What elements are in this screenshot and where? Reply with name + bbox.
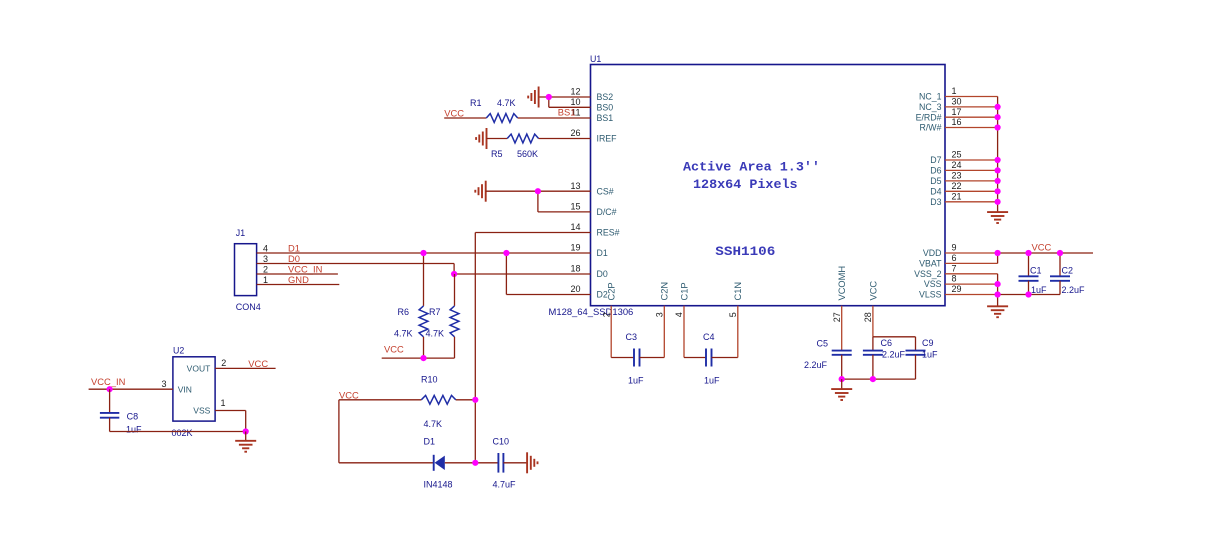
svg-text:D1: D1: [424, 437, 436, 447]
svg-text:BS0: BS0: [597, 102, 614, 112]
svg-text:4.7K: 4.7K: [497, 98, 516, 108]
svg-text:1: 1: [952, 86, 957, 96]
wire D1 branch down to U1 pin20 D2: [506, 253, 590, 295]
ground at C5: [831, 389, 852, 400]
svg-text:C10: C10: [493, 437, 510, 447]
svg-text:17: 17: [952, 107, 962, 117]
wire ground to R5: [487, 138, 508, 140]
wire R10 to RES# line: [456, 399, 476, 401]
svg-text:VBAT: VBAT: [919, 259, 942, 269]
ground at right bus: [987, 212, 1008, 223]
svg-text:IREF: IREF: [597, 134, 618, 144]
junction C1/VCC rail: [1025, 250, 1031, 256]
wire VCC to R10: [339, 399, 421, 401]
junction C5/rail: [839, 376, 845, 382]
ground at U2: [235, 441, 256, 452]
capacitor C5: [832, 351, 852, 355]
svg-text:4: 4: [674, 312, 684, 317]
wire U2 pin2 VOUT: [215, 367, 276, 369]
svg-text:29: 29: [952, 284, 962, 294]
junction bus: [995, 188, 1001, 194]
svg-text:NC_3: NC_3: [919, 102, 942, 112]
svg-text:3: 3: [161, 379, 166, 389]
svg-text:13: 13: [570, 181, 580, 191]
svg-text:BS1: BS1: [558, 106, 576, 117]
svg-text:8: 8: [952, 274, 957, 284]
svg-text:U2: U2: [173, 346, 184, 356]
capacitor C10: [498, 453, 503, 473]
svg-text:R5: R5: [491, 149, 503, 159]
capacitor C8: [100, 389, 119, 431]
svg-text:21: 21: [952, 191, 962, 201]
junction bus: [995, 178, 1001, 184]
wire VCC_IN stub (J1 pin2): [257, 273, 338, 275]
svg-text:VIN: VIN: [178, 384, 192, 394]
svg-text:C2N: C2N: [660, 282, 670, 301]
svg-text:C5: C5: [817, 339, 829, 349]
svg-text:GND: GND: [288, 274, 309, 285]
svg-text:D5: D5: [930, 176, 941, 186]
svg-text:24: 24: [952, 160, 962, 170]
svg-text:VSS_2: VSS_2: [914, 269, 941, 279]
resistor R7: [450, 274, 459, 358]
svg-text:BS2: BS2: [597, 92, 614, 102]
junction D1/R6: [420, 250, 426, 256]
svg-text:CS#: CS#: [597, 186, 614, 196]
wire pin10 BS0 up to BS2 row: [549, 97, 591, 107]
junction C6/rail: [870, 376, 876, 382]
junction BS2/BS0: [546, 94, 552, 100]
wire C3 to U1 pin3 C2N: [640, 306, 665, 358]
svg-text:2.2uF: 2.2uF: [882, 349, 906, 359]
junction CS#/D/C#: [535, 188, 541, 194]
wire C10 to ground: [503, 462, 527, 464]
resistor R5: [507, 134, 538, 143]
junction C2/VCC rail: [1057, 250, 1063, 256]
svg-text:19: 19: [570, 243, 580, 253]
wire VCC down to diode row: [339, 400, 434, 463]
svg-text:18: 18: [570, 264, 580, 274]
wire U1 pin27 VCOMH down: [841, 306, 843, 351]
svg-text:D/C#: D/C#: [597, 207, 617, 217]
svg-text:VCC: VCC: [339, 389, 359, 400]
svg-text:VSS: VSS: [193, 406, 210, 416]
junction D0/R7: [451, 271, 457, 277]
wire R1 to pin11 BS1: [518, 117, 591, 119]
svg-text:D1: D1: [597, 248, 608, 258]
wire VCC rail under R6/R7: [382, 357, 455, 359]
resistor R10: [421, 395, 456, 404]
svg-text:26: 26: [570, 128, 580, 138]
svg-text:C1P: C1P: [679, 282, 689, 300]
svg-text:6: 6: [952, 253, 957, 263]
svg-text:4.7K: 4.7K: [424, 419, 443, 429]
svg-text:2.2uF: 2.2uF: [804, 360, 828, 370]
svg-text:23: 23: [952, 171, 962, 181]
wire C5 to bottom rail: [841, 355, 843, 379]
junction bus: [995, 124, 1001, 130]
svg-text:D0: D0: [597, 269, 608, 279]
junction bus: [995, 167, 1001, 173]
wire R5 to pin26 IREF: [539, 138, 591, 140]
ground at BS2: [528, 87, 538, 108]
svg-text:3: 3: [263, 254, 268, 264]
svg-text:NC_1: NC_1: [919, 92, 942, 102]
svg-text:1uF: 1uF: [126, 425, 142, 435]
svg-text:VSS: VSS: [924, 279, 942, 289]
svg-text:20: 20: [570, 284, 580, 294]
wire cap bottom rail: [998, 294, 1060, 296]
svg-text:VOUT: VOUT: [187, 364, 211, 374]
ground at VSS group: [987, 306, 1008, 317]
wire U1 pin6 VBAT up to VDD row: [945, 253, 998, 263]
wire branch to pin15 D/C#: [538, 191, 591, 212]
svg-text:002K: 002K: [172, 428, 193, 438]
diode D1 IN4148: [434, 455, 445, 471]
svg-text:D3: D3: [930, 197, 941, 207]
svg-text:C8: C8: [127, 412, 139, 422]
wire VCC rail right: [998, 252, 1093, 254]
svg-text:R6: R6: [398, 307, 410, 317]
wire VCC to R1: [444, 117, 486, 119]
resistor R6: [419, 253, 428, 358]
wire to ground (U2): [245, 432, 247, 441]
svg-text:U1: U1: [590, 54, 601, 64]
capacitor C1: [1019, 253, 1039, 295]
svg-text:VLSS: VLSS: [919, 290, 942, 300]
junction diode/RES#: [472, 460, 478, 466]
resistor R1: [486, 114, 517, 123]
svg-text:VCOMH: VCOMH: [837, 266, 847, 301]
svg-text:C1: C1: [1030, 265, 1042, 275]
svg-text:C9: C9: [922, 338, 934, 348]
svg-text:D4: D4: [930, 186, 941, 196]
svg-text:D6: D6: [930, 166, 941, 176]
svg-text:Active Area 1.3'': Active Area 1.3'': [683, 161, 820, 175]
capacitor C6: [863, 351, 883, 355]
svg-text:25: 25: [952, 150, 962, 160]
svg-text:CON4: CON4: [236, 302, 261, 312]
svg-text:9: 9: [952, 243, 957, 253]
junction VDD/rail: [995, 250, 1001, 256]
junction R6/VCC rail: [420, 355, 426, 361]
svg-text:3: 3: [655, 312, 665, 317]
ground at C10: [527, 452, 537, 473]
svg-text:VCC: VCC: [868, 281, 878, 301]
svg-text:VDD: VDD: [923, 248, 942, 258]
wire RES# net: U1 pin14 left and down: [475, 233, 590, 463]
svg-text:28: 28: [863, 312, 873, 322]
wire U1 pin28 VCC down and branch to C9: [873, 306, 916, 351]
regulator U2 body: [173, 346, 215, 422]
svg-text:2: 2: [263, 264, 268, 274]
wire C4 to U1 pin5 C1N: [712, 306, 738, 358]
svg-text:IN4148: IN4148: [424, 480, 453, 490]
svg-text:5: 5: [728, 312, 738, 317]
svg-text:30: 30: [952, 97, 962, 107]
junction R10/RES#: [472, 397, 478, 403]
svg-text:C2: C2: [1062, 265, 1074, 275]
svg-text:J1: J1: [236, 228, 245, 238]
junction U2 ground: [243, 428, 249, 434]
svg-text:D1: D1: [288, 242, 300, 253]
U1 inner text Active Area: [683, 161, 820, 192]
wire D1 net: J1 pin4 to U1 pin19: [257, 252, 591, 254]
svg-text:14: 14: [570, 222, 580, 232]
svg-text:C4: C4: [703, 332, 715, 342]
svg-text:BS1: BS1: [597, 113, 614, 123]
svg-text:R7: R7: [429, 307, 441, 317]
wire C6 to bottom rail: [872, 355, 874, 379]
svg-text:4: 4: [263, 243, 268, 253]
wire GND stub (J1 pin1): [257, 284, 340, 286]
svg-text:16: 16: [952, 117, 962, 127]
wire pin12 BS2 to ground: [539, 96, 591, 98]
svg-text:2: 2: [601, 312, 611, 317]
svg-text:D7: D7: [930, 155, 941, 165]
junction VLSS/bus: [995, 291, 1001, 297]
svg-text:1: 1: [263, 275, 268, 285]
svg-text:E/RD#: E/RD#: [916, 112, 942, 122]
wires U1 right pins 1,30,17,16,25,24,23,22,21 to bus: [945, 97, 998, 202]
svg-text:560K: 560K: [517, 149, 538, 159]
IC U1 SSH1106 body: [590, 54, 945, 306]
svg-text:2: 2: [221, 358, 226, 368]
svg-text:C1N: C1N: [733, 282, 743, 301]
svg-text:VCC: VCC: [248, 358, 268, 369]
wire VCC_IN to U2 pin3: [89, 388, 173, 390]
svg-text:12: 12: [570, 87, 580, 97]
wire U1 pin7 VSS_2 to ground bus: [945, 274, 998, 307]
svg-text:VCC: VCC: [1032, 241, 1052, 252]
svg-text:C6: C6: [881, 338, 893, 348]
svg-text:R1: R1: [470, 98, 482, 108]
wire U1 pin29 VLSS to bus: [945, 294, 998, 296]
connector J1 CON4: [235, 228, 261, 312]
capacitor C4: [706, 349, 712, 367]
junction bus: [995, 104, 1001, 110]
svg-text:1uF: 1uF: [1031, 285, 1047, 295]
svg-text:VCC_IN: VCC_IN: [91, 376, 125, 387]
junction bus: [995, 114, 1001, 120]
svg-text:7: 7: [952, 263, 957, 273]
junction VCC_IN/C8: [107, 386, 113, 392]
junction bus: [995, 199, 1001, 205]
svg-text:15: 15: [570, 202, 580, 212]
capacitor C3: [634, 349, 640, 367]
wire U1 pin4 C1P down: [684, 306, 706, 358]
wire bottom rail C5-C9: [842, 378, 916, 380]
svg-text:R10: R10: [421, 375, 438, 385]
wire ground to pin13 CS#: [486, 190, 591, 192]
wire U2 pin1 VSS to ground rail: [215, 411, 246, 432]
svg-text:1uF: 1uF: [704, 376, 720, 386]
junction D1/D2 branch: [503, 250, 509, 256]
svg-text:4.7uF: 4.7uF: [493, 480, 517, 490]
svg-text:1uF: 1uF: [628, 376, 644, 386]
capacitor C2: [1050, 253, 1070, 295]
wire U1 pin9 VDD to VCC rail: [945, 252, 998, 254]
svg-text:RES#: RES#: [597, 228, 620, 238]
ground at CS#: [475, 181, 485, 202]
svg-text:1: 1: [220, 398, 225, 408]
svg-text:2.2uF: 2.2uF: [1062, 285, 1086, 295]
junction VSS/bus: [995, 281, 1001, 287]
svg-text:4.7K: 4.7K: [426, 329, 445, 339]
svg-text:C3: C3: [626, 332, 638, 342]
wire U1 pin2 C2P down: [611, 306, 634, 358]
wire rail to ground: [841, 379, 843, 389]
capacitor C9: [906, 337, 926, 379]
junction C1/bottom rail: [1025, 291, 1031, 297]
svg-text:VCC: VCC: [384, 344, 404, 355]
svg-text:D0: D0: [288, 253, 300, 264]
wire D0 net: J1 pin3 jog to U1 pin18: [257, 264, 591, 275]
svg-text:C2P: C2P: [607, 282, 617, 300]
svg-text:R/W#: R/W#: [920, 123, 942, 133]
svg-text:1uF: 1uF: [922, 349, 938, 359]
wire diode to C10: [445, 462, 499, 464]
svg-text:SSH1106: SSH1106: [715, 245, 775, 259]
wire right bus vertical: [997, 97, 999, 213]
svg-text:4.7K: 4.7K: [394, 329, 413, 339]
wire U1 pin8 VSS to bus: [945, 283, 998, 285]
svg-text:22: 22: [952, 181, 962, 191]
wire C8 bottom rail: [110, 431, 246, 433]
junction bus: [995, 157, 1001, 163]
svg-text:27: 27: [832, 312, 842, 322]
svg-text:M128_64_SSD1306: M128_64_SSD1306: [549, 307, 634, 317]
svg-text:VCC: VCC: [444, 108, 464, 119]
svg-text:VCC_IN: VCC_IN: [288, 263, 322, 274]
svg-text:128x64 Pixels: 128x64 Pixels: [693, 178, 798, 192]
ground at R5: [476, 128, 486, 149]
